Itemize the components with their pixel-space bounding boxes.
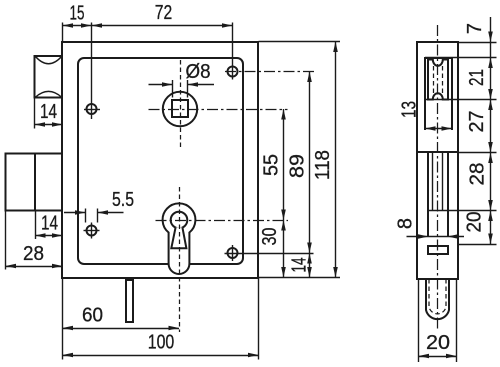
svg-text:118: 118 — [312, 150, 334, 180]
svg-text:28: 28 — [467, 163, 489, 186]
svg-text:89: 89 — [287, 154, 309, 178]
svg-text:20: 20 — [426, 332, 450, 354]
svg-text:Ø8: Ø8 — [186, 61, 211, 83]
svg-text:21: 21 — [466, 69, 488, 86]
svg-text:28: 28 — [23, 243, 44, 265]
svg-text:7: 7 — [464, 23, 486, 34]
svg-text:60: 60 — [82, 305, 103, 327]
svg-text:27: 27 — [466, 111, 488, 133]
svg-text:14: 14 — [40, 101, 57, 123]
svg-text:55: 55 — [261, 154, 283, 176]
svg-text:8: 8 — [395, 218, 417, 229]
svg-text:5.5: 5.5 — [112, 189, 134, 211]
svg-text:30: 30 — [259, 228, 281, 246]
svg-text:13: 13 — [399, 101, 421, 118]
svg-text:14: 14 — [41, 213, 58, 235]
svg-text:14: 14 — [289, 258, 311, 273]
svg-text:72: 72 — [155, 2, 173, 24]
svg-text:20: 20 — [464, 212, 486, 233]
svg-text:15: 15 — [70, 3, 85, 25]
svg-text:100: 100 — [148, 332, 175, 354]
